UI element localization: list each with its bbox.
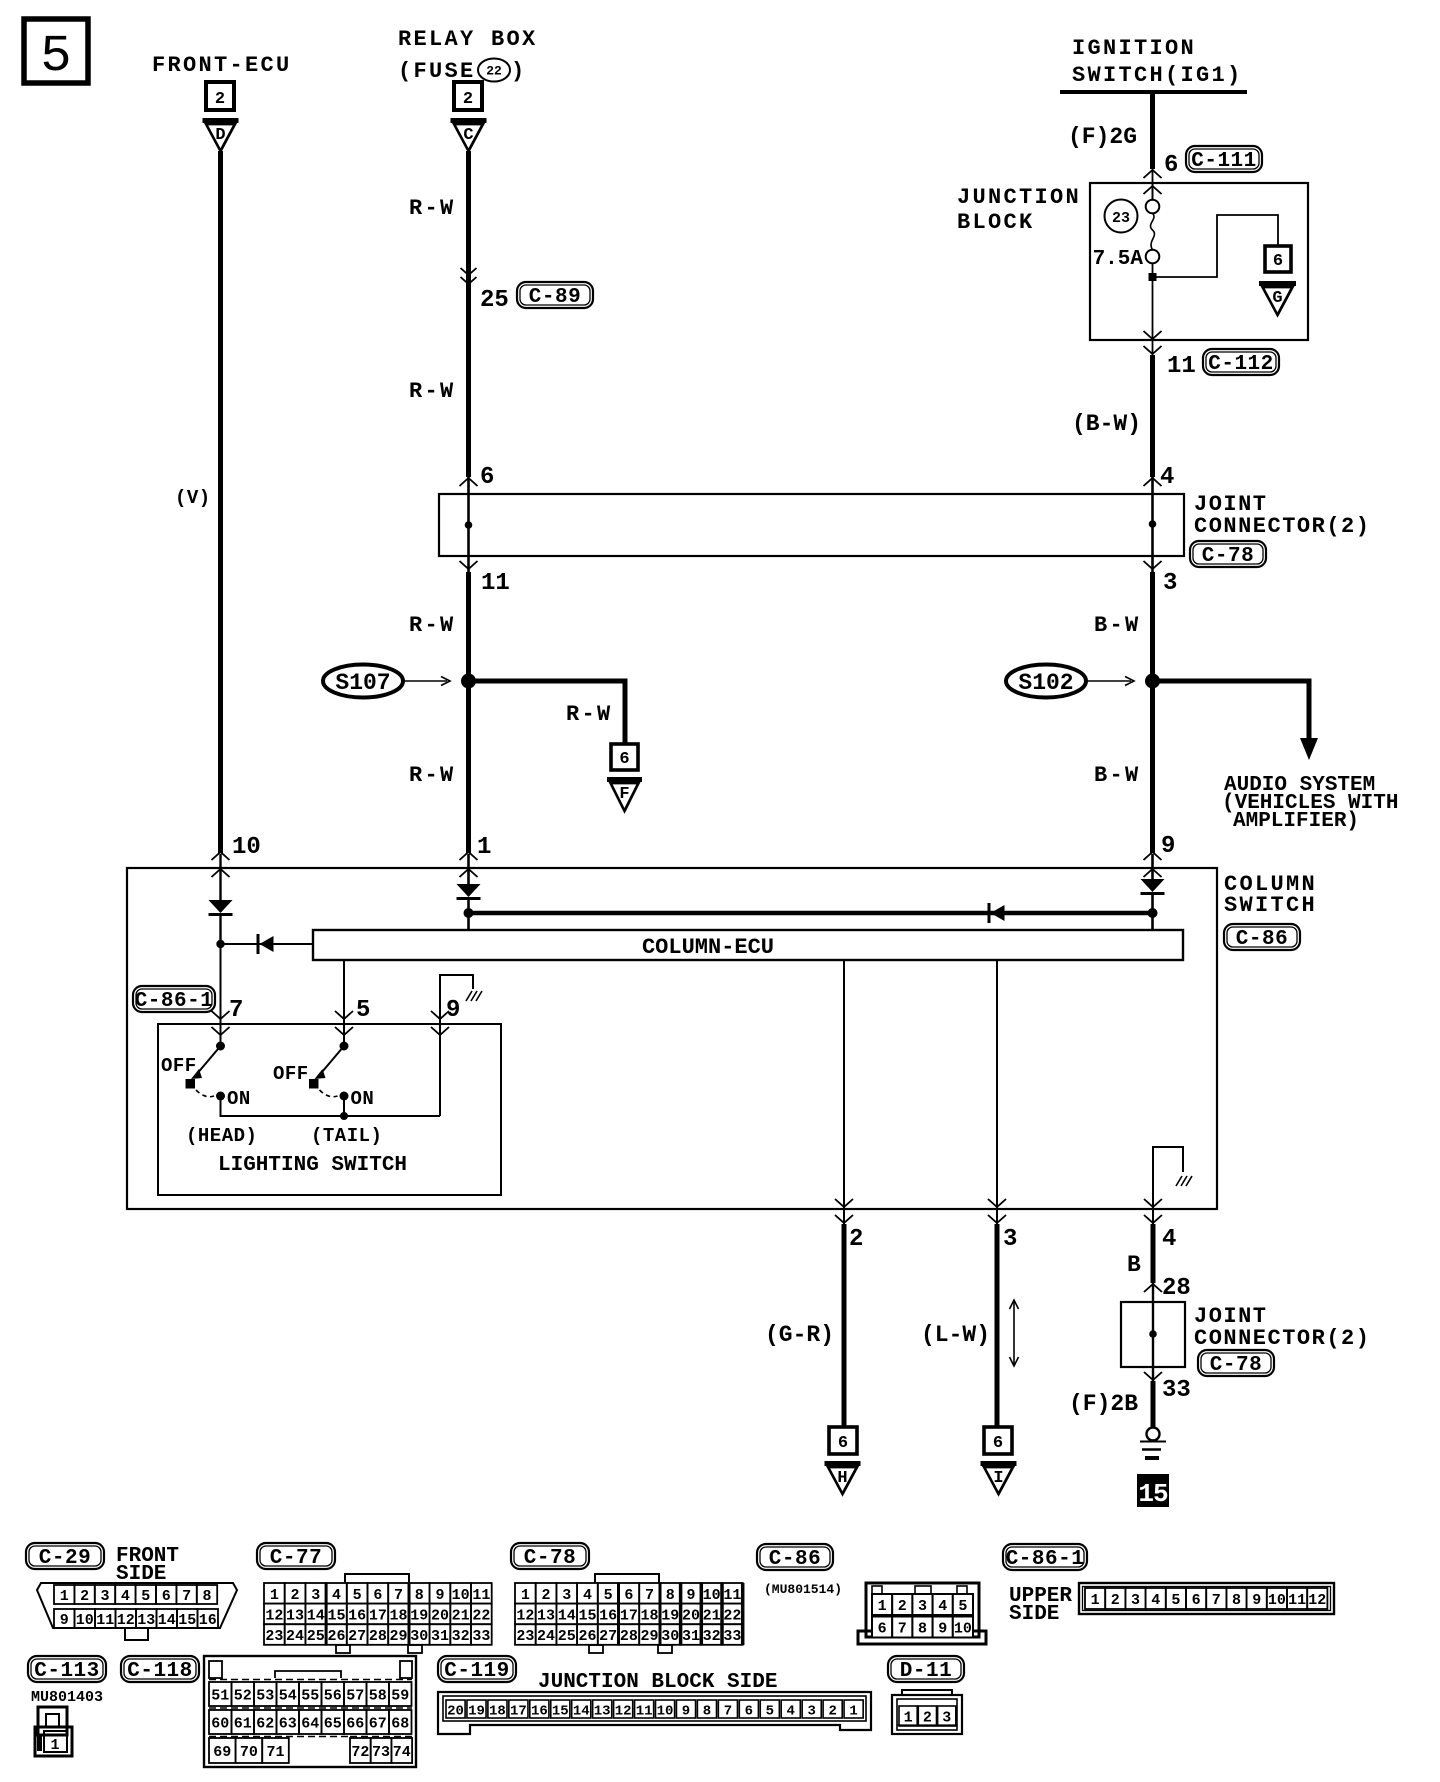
pin 9 into lighting switch: [431, 997, 460, 1035]
wire B-W joint connector to column switch: [1150, 572, 1155, 853]
svg-text:70: 70: [240, 1744, 258, 1761]
svg-text:20: 20: [431, 1607, 449, 1624]
triangle D: [203, 121, 239, 152]
wire B to joint connector: [1127, 1209, 1153, 1302]
svg-text:11: 11: [1167, 353, 1196, 380]
svg-text:7: 7: [182, 1588, 191, 1605]
svg-text:2: 2: [291, 1587, 300, 1604]
svg-text:32: 32: [452, 1628, 470, 1645]
connector D-11 body: [892, 1690, 962, 1734]
svg-text:9: 9: [446, 997, 460, 1024]
svg-text:C-86-1: C-86-1: [1006, 1548, 1085, 1571]
svg-text:2: 2: [542, 1587, 551, 1604]
label OFF (head): [161, 1055, 197, 1077]
wire (V) FRONT-ECU to column switch: [175, 151, 221, 853]
pin 3 out of joint connector: [1144, 561, 1178, 597]
svg-text:60: 60: [211, 1716, 229, 1733]
svg-text:B-W: B-W: [1094, 763, 1141, 788]
svg-text:11: 11: [96, 1612, 114, 1629]
label COLUMN-ECU: [642, 935, 774, 960]
svg-text:62: 62: [256, 1716, 274, 1733]
label JOINT CONNECTOR(2) lower: [1194, 1304, 1370, 1351]
pin 3 label: [1003, 1226, 1017, 1253]
switch HEAD: [186, 1042, 226, 1118]
svg-text:BLOCK: BLOCK: [957, 210, 1035, 235]
svg-text:33: 33: [723, 1628, 741, 1645]
connector C-119 pins: [446, 1700, 863, 1720]
svg-text:16: 16: [199, 1612, 217, 1629]
svg-text:C-113: C-113: [34, 1660, 100, 1683]
svg-text:27: 27: [348, 1628, 366, 1645]
svg-text:AMPLIFIER): AMPLIFIER): [1233, 810, 1359, 833]
svg-text:18: 18: [390, 1607, 408, 1624]
connector C-29 pins row1: [54, 1585, 217, 1605]
svg-text:10: 10: [703, 1587, 721, 1604]
svg-text:57: 57: [346, 1688, 364, 1705]
svg-text:20: 20: [447, 1704, 464, 1720]
wire label (B-W): [1072, 411, 1141, 437]
ground symbol: [1140, 1428, 1166, 1459]
svg-text:9: 9: [60, 1612, 69, 1629]
tag C-113: [28, 1656, 106, 1683]
svg-text:G: G: [1272, 289, 1282, 308]
svg-text:6: 6: [878, 1621, 887, 1638]
svg-text:1: 1: [60, 1588, 69, 1605]
svg-text:28: 28: [369, 1628, 387, 1645]
connector C-113 body: [35, 1707, 72, 1756]
connector C-77 feet: [336, 1645, 422, 1653]
diode to column-ecu: [221, 934, 314, 954]
arrow into column switch pin 10: [212, 852, 230, 877]
svg-text:6: 6: [480, 464, 494, 491]
label UPPER SIDE: [1009, 1585, 1072, 1626]
wire column-ecu to pin 2: [843, 960, 845, 1209]
triangle F: [607, 780, 642, 812]
joint connector left wire: [465, 477, 473, 572]
svg-text:6: 6: [993, 1434, 1003, 1453]
svg-text:13: 13: [286, 1607, 304, 1624]
pin 1 into column switch: [460, 834, 492, 877]
triangle C: [451, 121, 487, 152]
svg-text:61: 61: [234, 1716, 252, 1733]
svg-text:C-86: C-86: [769, 1548, 821, 1571]
svg-text:C-89: C-89: [529, 286, 581, 309]
label (TAIL): [311, 1125, 382, 1147]
svg-text:3: 3: [942, 1710, 951, 1727]
svg-text:25: 25: [480, 287, 509, 314]
node middle: [464, 908, 474, 918]
svg-text:14: 14: [158, 1612, 176, 1629]
svg-text:11: 11: [1288, 1592, 1306, 1609]
svg-text:2: 2: [923, 1710, 932, 1727]
label JUNCTION BLOCK: [957, 185, 1081, 235]
connector C-78 bracket: [595, 1574, 659, 1583]
svg-text:25: 25: [307, 1628, 325, 1645]
svg-text:12: 12: [117, 1612, 135, 1629]
svg-text:C-78: C-78: [1210, 1354, 1262, 1377]
svg-text:17: 17: [369, 1607, 387, 1624]
connector C-86 body: [858, 1583, 986, 1644]
svg-text:R-W: R-W: [566, 702, 613, 727]
column-ecu box: [313, 930, 1183, 960]
label LIGHTING SWITCH: [218, 1154, 407, 1177]
svg-text:33: 33: [1162, 1377, 1191, 1404]
svg-text:15: 15: [1138, 1479, 1168, 1509]
svg-text:3: 3: [807, 1704, 815, 1720]
connector C-86-1 pins: [1085, 1588, 1327, 1609]
svg-text:COLUMN-ECU: COLUMN-ECU: [642, 935, 774, 960]
tag C-89: [517, 282, 593, 309]
svg-text:C-118: C-118: [127, 1660, 193, 1683]
node right: [1148, 908, 1158, 918]
label MU801403: [31, 1689, 103, 1706]
column switch box: [127, 868, 1217, 1209]
label OFF (tail): [273, 1063, 309, 1085]
wire column-ecu to pin 3: [996, 960, 998, 1209]
wire label R-W: [409, 379, 456, 404]
triangle I: [981, 1464, 1017, 1495]
pin 28 into joint connector: [1144, 1275, 1191, 1302]
svg-text:4: 4: [787, 1704, 795, 1720]
svg-text:(MU801514): (MU801514): [764, 1582, 842, 1597]
svg-text:12: 12: [615, 1704, 632, 1720]
svg-text:9: 9: [1252, 1592, 1261, 1609]
svg-text:33: 33: [472, 1628, 490, 1645]
pin 4 ground hook: [1153, 1147, 1192, 1209]
tag C-86-1: [133, 986, 215, 1013]
svg-text:3: 3: [1131, 1592, 1140, 1609]
connector C-77 thick splits: [326, 1583, 409, 1645]
connector C-78 pins row3: [515, 1624, 743, 1645]
svg-text:59: 59: [391, 1688, 409, 1705]
svg-text:13: 13: [137, 1612, 155, 1629]
svg-text:2: 2: [849, 1226, 863, 1253]
tag D-11: [888, 1656, 964, 1683]
svg-text:73: 73: [372, 1744, 390, 1761]
svg-text:15: 15: [178, 1612, 196, 1629]
pin 3 arrows: [988, 1199, 1006, 1223]
svg-text:SWITCH(IG1): SWITCH(IG1): [1072, 63, 1243, 88]
connector C-118 pins row1: [209, 1682, 412, 1706]
svg-text:22: 22: [472, 1607, 490, 1624]
svg-text:24: 24: [286, 1628, 304, 1645]
svg-text:19: 19: [661, 1607, 679, 1624]
svg-text:JUNCTION: JUNCTION: [957, 185, 1081, 210]
svg-text:MU801403: MU801403: [31, 1689, 103, 1706]
pin 10 label: [232, 834, 261, 861]
svg-text:1: 1: [1091, 1592, 1100, 1609]
svg-text:8: 8: [202, 1588, 211, 1605]
svg-text:52: 52: [234, 1688, 252, 1705]
svg-text:7.5A: 7.5A: [1093, 248, 1144, 271]
label FRONT-ECU: [152, 53, 292, 78]
svg-text:53: 53: [256, 1688, 274, 1705]
svg-text:6: 6: [373, 1587, 382, 1604]
svg-text:(TAIL): (TAIL): [311, 1125, 382, 1147]
connector box 2 (FRONT-ECU): [206, 82, 234, 110]
svg-text:16: 16: [599, 1607, 617, 1624]
svg-text:72: 72: [351, 1744, 369, 1761]
tag C-77: [257, 1543, 335, 1570]
pin 11 label: [1167, 353, 1196, 380]
svg-text:56: 56: [324, 1688, 342, 1705]
joint connector (2) C-78 lower box: [1121, 1302, 1185, 1383]
connector C-29 outline: [37, 1583, 237, 1628]
svg-text:5: 5: [141, 1588, 150, 1605]
svg-text:71: 71: [266, 1744, 284, 1761]
svg-text:9: 9: [686, 1587, 695, 1604]
tag C-118: [121, 1656, 199, 1683]
svg-text:10: 10: [954, 1621, 972, 1638]
label AUDIO SYSTEM: [1222, 774, 1398, 833]
svg-text:C-112: C-112: [1208, 353, 1274, 376]
connector C-78 thick splits: [619, 1583, 743, 1645]
tag C-119: [438, 1656, 516, 1683]
svg-text:4: 4: [1151, 1592, 1160, 1609]
svg-text:SWITCH: SWITCH: [1224, 893, 1317, 918]
svg-text:23: 23: [516, 1628, 534, 1645]
connector C-77 bracket: [345, 1574, 409, 1583]
svg-text:(B-W): (B-W): [1072, 411, 1141, 437]
svg-text:F: F: [619, 785, 629, 804]
node left: [216, 940, 224, 948]
label ON (head): [227, 1088, 251, 1110]
svg-text:1: 1: [477, 834, 491, 861]
svg-text:15: 15: [578, 1607, 596, 1624]
svg-text:1: 1: [270, 1587, 279, 1604]
svg-text:26: 26: [327, 1628, 345, 1645]
diode on front-ecu wire: [209, 854, 233, 944]
svg-text:4: 4: [1160, 464, 1174, 491]
svg-text:3: 3: [918, 1598, 927, 1615]
svg-text:6: 6: [1192, 1592, 1201, 1609]
svg-text:R-W: R-W: [409, 613, 456, 638]
svg-text:8: 8: [1232, 1592, 1241, 1609]
svg-text:28: 28: [1162, 1275, 1191, 1302]
svg-text:5: 5: [1171, 1592, 1180, 1609]
node in junction block: [1149, 273, 1157, 281]
pin 6 into joint connector: [460, 464, 495, 491]
connector C-86 pins row1: [872, 1594, 973, 1615]
svg-text:15: 15: [552, 1704, 569, 1720]
svg-text:IGNITION: IGNITION: [1072, 36, 1196, 61]
svg-text:31: 31: [431, 1628, 449, 1645]
svg-text:23: 23: [265, 1628, 283, 1645]
svg-text:D: D: [215, 126, 225, 145]
svg-text:26: 26: [578, 1628, 596, 1645]
label IGNITION SWITCH(IG1): [1072, 36, 1243, 88]
joint connector right wire: [1149, 477, 1157, 572]
svg-text:3: 3: [1163, 570, 1177, 597]
pin 9 into column switch: [1144, 833, 1176, 877]
junction node S102: [1145, 674, 1160, 689]
svg-text:21: 21: [452, 1607, 470, 1624]
svg-text:22: 22: [486, 64, 502, 79]
wire label B-W: [1094, 763, 1141, 788]
connector D-11 pins: [897, 1706, 957, 1727]
svg-text:10: 10: [232, 834, 261, 861]
svg-text:6: 6: [838, 1434, 848, 1453]
svg-text:3: 3: [1003, 1226, 1017, 1253]
diode on r-w wire: [457, 854, 481, 930]
svg-text:R-W: R-W: [409, 379, 456, 404]
svg-text:14: 14: [307, 1607, 325, 1624]
svg-text:28: 28: [620, 1628, 638, 1645]
svg-text:4: 4: [121, 1588, 130, 1605]
wire label R-W: [409, 763, 456, 788]
svg-text:SIDE: SIDE: [1009, 1603, 1059, 1626]
svg-text:CONNECTOR(2): CONNECTOR(2): [1194, 514, 1370, 539]
svg-text:C-78: C-78: [524, 1547, 576, 1570]
svg-text:4: 4: [583, 1587, 592, 1604]
svg-text:7: 7: [724, 1704, 732, 1720]
connector box 6 (I): [984, 1427, 1012, 1454]
connector C-29 pins row2: [54, 1609, 218, 1629]
wire to lighting switch pin 7: [220, 944, 222, 1046]
svg-text:19: 19: [468, 1704, 485, 1720]
svg-text:B-W: B-W: [1094, 613, 1141, 638]
svg-text:18: 18: [641, 1607, 659, 1624]
svg-text:10: 10: [657, 1704, 674, 1720]
branch R-W to F: [469, 681, 626, 744]
svg-text:7: 7: [229, 997, 243, 1024]
svg-text:6: 6: [624, 1587, 633, 1604]
svg-text:7: 7: [1212, 1592, 1221, 1609]
svg-text:(F)2B: (F)2B: [1069, 1391, 1138, 1417]
wire column-ecu to pin 5: [343, 960, 345, 1046]
pin 25 label: [480, 287, 509, 314]
svg-text:23: 23: [1112, 210, 1130, 227]
connector C-77 pins row2: [264, 1604, 492, 1625]
svg-text:4: 4: [938, 1598, 947, 1615]
svg-text:3: 3: [562, 1587, 571, 1604]
svg-text:20: 20: [682, 1607, 700, 1624]
svg-text:S102: S102: [1018, 670, 1073, 696]
wire label B-W: [1094, 613, 1141, 638]
svg-text:29: 29: [641, 1628, 659, 1645]
connector C-78 feet: [589, 1645, 672, 1653]
svg-text:3: 3: [311, 1587, 320, 1604]
pin 7 into lighting switch: [212, 997, 244, 1035]
connector C-29 key tab: [125, 1628, 148, 1640]
tag C-86-1 view: [1003, 1544, 1087, 1571]
connector C-77 pins row3: [264, 1624, 492, 1645]
tag C-29: [26, 1543, 104, 1570]
pin 5 into lighting switch: [335, 997, 370, 1035]
svg-text:11: 11: [472, 1587, 490, 1604]
wire R-W joint connector to column switch: [466, 572, 471, 853]
svg-text:68: 68: [391, 1716, 409, 1733]
connector C-78 pins row2: [515, 1604, 743, 1625]
svg-text:1: 1: [521, 1587, 530, 1604]
joint connector (2) C-78 box: [439, 494, 1184, 556]
svg-text:I: I: [993, 1469, 1003, 1488]
svg-text:55: 55: [301, 1688, 319, 1705]
svg-text:58: 58: [369, 1688, 387, 1705]
svg-text:1: 1: [849, 1704, 857, 1720]
pin 4 arrows: [1144, 1199, 1162, 1223]
svg-text:ON: ON: [351, 1088, 375, 1110]
wire R-W relay box to joint connector: [466, 151, 471, 477]
svg-text:31: 31: [682, 1628, 700, 1645]
svg-text:22: 22: [723, 1607, 741, 1624]
svg-text:12: 12: [516, 1607, 534, 1624]
svg-text:6: 6: [1273, 252, 1283, 271]
two-way arrow: [1010, 1300, 1019, 1366]
label (HEAD): [186, 1125, 257, 1147]
pin 2 label: [849, 1226, 863, 1253]
svg-text:9: 9: [1161, 833, 1175, 860]
svg-text:5: 5: [40, 27, 71, 86]
svg-text:67: 67: [369, 1716, 387, 1733]
tag C-111: [1186, 146, 1262, 173]
svg-text:19: 19: [410, 1607, 428, 1624]
tag C-112: [1203, 349, 1279, 376]
connector box 6 (junction block): [1265, 246, 1291, 272]
connector box 6 (F): [611, 744, 638, 770]
pin 2 arrows: [835, 1199, 853, 1223]
connector C-77 pins row1: [264, 1583, 492, 1604]
svg-text:8: 8: [666, 1587, 675, 1604]
svg-text:2: 2: [80, 1588, 89, 1605]
tag C-78 upper: [1190, 541, 1266, 568]
svg-text:14: 14: [558, 1607, 576, 1624]
wire to ground: [1151, 1381, 1156, 1427]
wire label R-W: [409, 613, 456, 638]
svg-text:5: 5: [958, 1598, 967, 1615]
svg-text:11: 11: [636, 1704, 653, 1720]
tag C-86: [1224, 924, 1300, 951]
svg-text:4: 4: [332, 1587, 341, 1604]
connector box 2 (RELAY BOX): [454, 82, 482, 110]
connector C-118 pins row3a: [209, 1738, 289, 1763]
svg-text:1: 1: [878, 1598, 887, 1615]
pin 4 into joint connector: [1144, 464, 1175, 491]
svg-text:64: 64: [301, 1716, 319, 1733]
svg-text:LIGHTING SWITCH: LIGHTING SWITCH: [218, 1154, 407, 1177]
svg-text:): ): [511, 59, 527, 84]
connector C-78 pins row1: [515, 1583, 743, 1604]
svg-text:66: 66: [346, 1716, 364, 1733]
tag C-78 lower: [1198, 1350, 1274, 1377]
tag C-78 view: [511, 1543, 589, 1570]
connector C-86-1 body: [1079, 1583, 1334, 1614]
svg-text:54: 54: [279, 1688, 297, 1705]
arrow into junction block: [1144, 170, 1162, 194]
svg-text:7: 7: [645, 1587, 654, 1604]
switch TAIL: [309, 1042, 349, 1118]
wire fuse to node: [1152, 264, 1154, 278]
connector C-118 body: [204, 1656, 416, 1767]
svg-text:9: 9: [682, 1704, 690, 1720]
pin 33 out of joint connector: [1144, 1372, 1191, 1404]
triangle H: [825, 1464, 861, 1495]
svg-text:65: 65: [324, 1716, 342, 1733]
svg-text:D-11: D-11: [900, 1660, 952, 1683]
svg-text:16: 16: [348, 1607, 366, 1624]
svg-text:C-111: C-111: [1191, 150, 1257, 173]
svg-text:H: H: [837, 1469, 847, 1488]
svg-text:2: 2: [463, 90, 473, 109]
pin 6 label: [1164, 152, 1178, 179]
svg-text:74: 74: [393, 1744, 411, 1761]
connector C-118 pins row2: [209, 1710, 412, 1734]
svg-text:5: 5: [356, 997, 370, 1024]
svg-text:1: 1: [904, 1710, 913, 1727]
svg-text:ON: ON: [227, 1088, 251, 1110]
svg-text:69: 69: [213, 1744, 231, 1761]
wire (L-W) to I: [921, 1209, 997, 1427]
